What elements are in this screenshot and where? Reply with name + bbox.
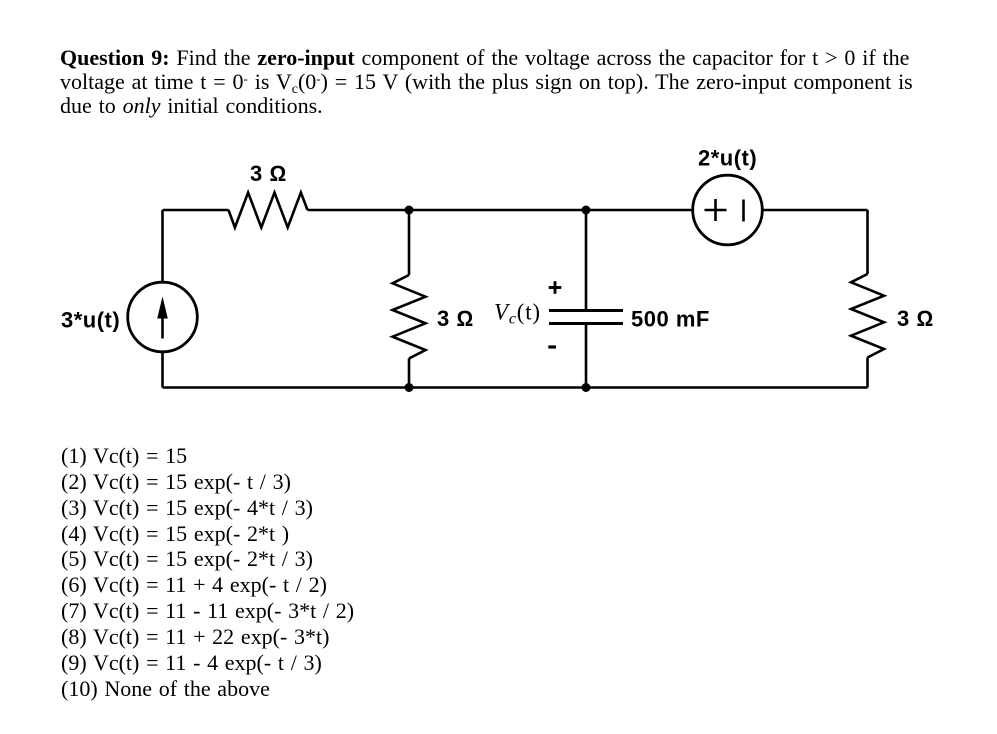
wire left rail lower	[161, 353, 164, 388]
wire top rail middle segment	[308, 209, 693, 212]
node bottom capacitor junction	[582, 383, 591, 392]
wire top rail right segment	[763, 209, 868, 212]
svg-text:3 Ω: 3 Ω	[897, 306, 934, 331]
label capacitor minus polarity	[548, 345, 556, 348]
svg-text:3 Ω: 3 Ω	[437, 306, 474, 331]
wire right rail upper	[866, 210, 869, 274]
wire R2 top lead	[408, 210, 411, 275]
wire left rail upper	[161, 210, 164, 282]
svg-text:Vc(t): Vc(t)	[494, 300, 541, 328]
wire R3 bottom lead	[866, 358, 869, 388]
resistor R3 3 ohm vertical right	[851, 274, 884, 358]
svg-text:3 Ω: 3 Ω	[250, 161, 287, 186]
wire R2 bottom lead	[408, 359, 411, 388]
voltage source V1 circle	[693, 175, 763, 245]
node top middle junction	[405, 206, 414, 215]
capacitor C1 plates	[549, 309, 623, 312]
label capacitor plus polarity	[549, 286, 562, 289]
wire bottom rail	[163, 386, 868, 389]
resistor R1 3 ohm horizontal	[229, 193, 308, 228]
current source I1 circle	[128, 282, 198, 352]
wire C1 top lead	[585, 210, 588, 311]
voltage source V1 plus sign	[705, 209, 727, 212]
current source I1 arrow	[161, 312, 164, 339]
resistor R2 3 ohm vertical middle	[393, 275, 426, 359]
svg-text:3*u(t): 3*u(t)	[61, 308, 120, 333]
svg-text:2*u(t): 2*u(t)	[698, 146, 757, 171]
svg-text:500 mF: 500 mF	[631, 307, 710, 332]
node bottom middle junction	[405, 383, 414, 392]
wire C1 bottom lead	[585, 324, 588, 388]
voltage source V1 minus bar	[742, 200, 745, 222]
node top capacitor junction	[582, 206, 591, 215]
wire top rail left segment	[163, 209, 229, 212]
